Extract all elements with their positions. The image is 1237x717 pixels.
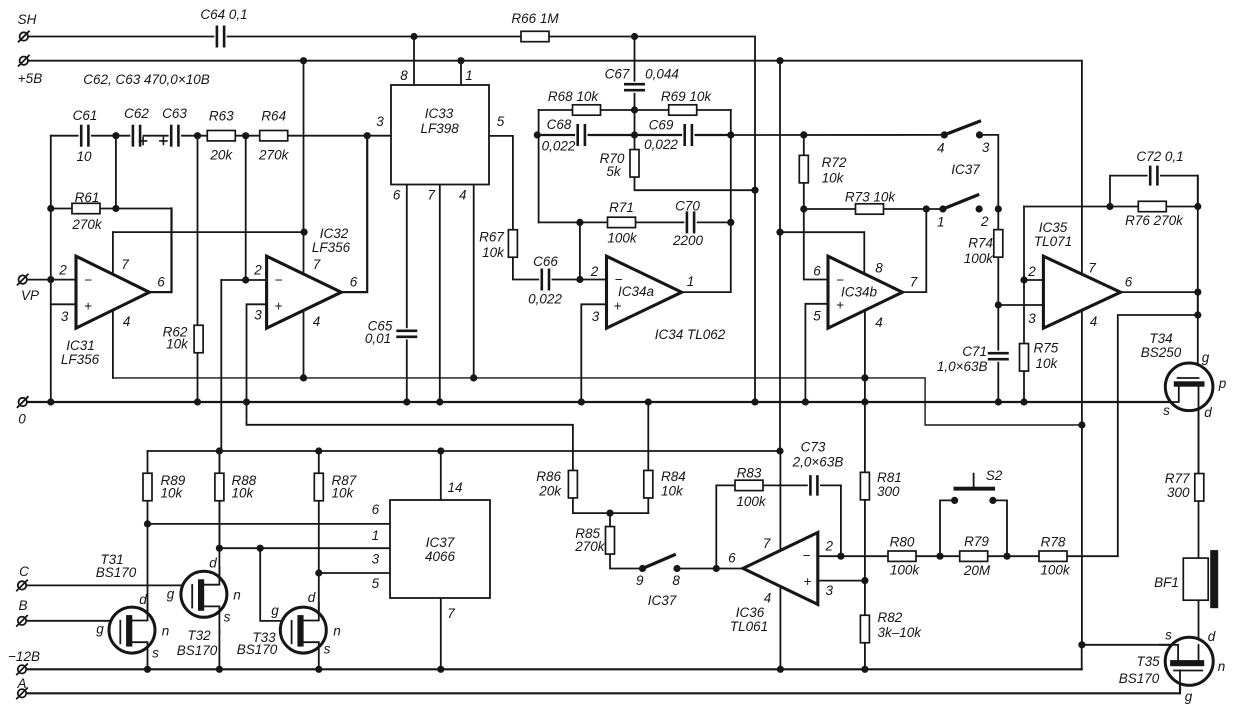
- junction C70 right: [727, 219, 734, 226]
- resistor R89: [143, 473, 152, 501]
- capacitor C65: [396, 328, 417, 339]
- svg-text:R78: R78: [1041, 535, 1066, 550]
- svg-text:LF356: LF356: [312, 240, 351, 255]
- polarity plus C62: [140, 137, 147, 144]
- capacitor C63: [169, 125, 181, 147]
- junction T33 source on -12B rail: [315, 666, 322, 673]
- svg-text:100k: 100k: [607, 231, 638, 246]
- capacitor C71: [988, 351, 1009, 362]
- wire R74 branch: [997, 209, 999, 305]
- resistor R69: [669, 105, 697, 115]
- junction R63-R64 riser to IC32 pin2: [242, 276, 249, 283]
- svg-text:6: 6: [350, 275, 358, 290]
- wire left input riser: [50, 136, 52, 402]
- resistor R79: [960, 551, 988, 561]
- svg-text:IC32: IC32: [320, 226, 349, 241]
- capacitor C67: [624, 82, 645, 93]
- svg-text:4: 4: [937, 141, 945, 156]
- svg-text:3: 3: [592, 309, 600, 324]
- wire S2 right bracket: [993, 500, 1007, 556]
- svg-text:BS170: BS170: [96, 565, 137, 580]
- wire IC31 pin3 lead: [51, 303, 76, 305]
- junction IC32 output to IC33 pin3: [364, 132, 371, 139]
- svg-text:d: d: [139, 592, 147, 607]
- wire IC37 pin6 line: [148, 523, 392, 525]
- wire C73 drop to pin2 row: [840, 485, 842, 556]
- svg-text:10k: 10k: [822, 171, 845, 186]
- resistor R70: [630, 150, 639, 178]
- junction R63-R64 to IC32 pin2: [242, 132, 249, 139]
- svg-text:0: 0: [18, 412, 26, 427]
- wire +5B mid riser: [779, 61, 781, 451]
- transistor T31 BS170 source lead: [132, 642, 147, 670]
- resistor R83: [735, 480, 763, 490]
- junction +5V sub rail right end: [776, 447, 783, 454]
- terminal +5B: [19, 56, 29, 66]
- svg-text:R72: R72: [822, 155, 847, 170]
- wire V+ supply rail left: [113, 231, 304, 233]
- svg-text:C68: C68: [547, 117, 572, 132]
- svg-text:−12B: −12B: [8, 649, 40, 664]
- wire R85 branch: [610, 513, 643, 568]
- wire +5V sub rail: [148, 450, 781, 452]
- polarity plus C63: [160, 137, 167, 144]
- wire IC37 pin3 line: [319, 572, 391, 574]
- wire R73 row: [804, 208, 943, 210]
- svg-text:2: 2: [58, 263, 67, 278]
- svg-text:BS170: BS170: [237, 642, 278, 657]
- wire IC34b output riser: [902, 209, 926, 292]
- capacitor C61: [79, 125, 91, 147]
- wire IC35 to IC36 feedback: [1118, 292, 1198, 556]
- svg-text:4: 4: [459, 188, 467, 203]
- svg-text:100k: 100k: [736, 494, 767, 509]
- wire C61 input row: [51, 135, 246, 137]
- IC box IC33 LF398: [391, 85, 489, 185]
- junction R62 bottom: [194, 398, 201, 405]
- transistor T34 channel bar: [1174, 381, 1205, 386]
- junction S2 contact right: [989, 497, 996, 504]
- junction IC37 pin14 on +5V sub rail: [437, 447, 444, 454]
- junction C61-C62: [112, 132, 119, 139]
- transistor T35 gate electrode: [1174, 670, 1202, 672]
- wire R68 loop left side: [538, 110, 540, 222]
- svg-text:C62: C62: [124, 106, 149, 121]
- junction R74 top: [995, 205, 1002, 212]
- svg-text:1,0×63B: 1,0×63B: [937, 359, 988, 374]
- wire R71-C70 row: [539, 221, 731, 223]
- wire R62 branch: [197, 136, 199, 402]
- wire R72 branch: [803, 135, 805, 209]
- svg-text:g: g: [1185, 689, 1193, 704]
- transistor T32 BS170 circle: [181, 571, 227, 617]
- svg-text:7: 7: [1088, 261, 1096, 276]
- wire IC34b pin5 ground: [805, 304, 828, 402]
- op-amp IC36: [743, 533, 818, 605]
- svg-text:20k: 20k: [209, 148, 233, 163]
- wire A rail: [25, 671, 1180, 694]
- svg-text:BF1: BF1: [1154, 575, 1179, 590]
- junction C67 bottom on R68 row: [631, 106, 638, 113]
- svg-text:10k: 10k: [232, 486, 255, 501]
- op-amp IC35: [1043, 256, 1120, 328]
- junction C67 on SH rail: [631, 33, 638, 40]
- svg-text:C72 0,1: C72 0,1: [1136, 149, 1183, 164]
- svg-text:7: 7: [427, 188, 435, 203]
- transistor T35 channel bar: [1170, 660, 1204, 666]
- junction T35 source node: [1078, 641, 1085, 648]
- svg-text:4066: 4066: [425, 549, 456, 564]
- switch IC37 lever 4-3: [944, 121, 979, 135]
- svg-text:d: d: [209, 556, 217, 571]
- svg-text:7: 7: [313, 257, 321, 272]
- svg-text:300: 300: [1167, 485, 1190, 500]
- svg-text:B: B: [18, 598, 27, 613]
- svg-text:3: 3: [982, 140, 990, 155]
- resistor R72: [799, 155, 808, 183]
- wire IC35 pin2 lead: [1024, 279, 1043, 281]
- svg-text:C64 0,1: C64 0,1: [200, 7, 247, 22]
- svg-text:3: 3: [254, 308, 262, 323]
- transistor T32 BS170 source lead: [204, 606, 219, 634]
- junction IC36 pin4 on -12B rail: [777, 666, 784, 673]
- resistor R86: [568, 470, 577, 498]
- svg-text:0,022: 0,022: [542, 139, 576, 154]
- junction IC34a pin3 ground: [578, 398, 585, 405]
- wire R67 to C66 row: [513, 257, 607, 279]
- transistor T32 BS170 channel bar: [198, 579, 204, 611]
- wire T32 source to -12B: [218, 630, 220, 669]
- svg-text:IC31: IC31: [66, 338, 95, 353]
- junction IC35 pin2: [1020, 276, 1027, 283]
- wire R71 row to C66 row riser: [579, 222, 581, 279]
- svg-text:R64: R64: [261, 109, 286, 124]
- wire switch8 to IC36 output: [677, 568, 743, 570]
- junction R81 line ground: [861, 398, 868, 405]
- svg-text:0,01: 0,01: [365, 331, 391, 346]
- svg-text:g: g: [271, 603, 279, 618]
- wire C input lead: [22, 584, 193, 586]
- wire V- supply rail: [113, 378, 1082, 425]
- svg-text:TL061: TL061: [730, 619, 768, 634]
- capacitor C68: [575, 124, 587, 146]
- svg-text:s: s: [152, 646, 159, 661]
- junction R75 ground: [1020, 398, 1027, 405]
- wire VP lead: [23, 279, 76, 281]
- wire IC32 pin3 lead and ground stub: [247, 304, 573, 470]
- svg-text:4: 4: [1090, 314, 1098, 329]
- wire switch3 to switch2 link: [980, 135, 999, 209]
- svg-text:−: −: [803, 548, 811, 563]
- svg-text:5k: 5k: [606, 164, 622, 179]
- wire R77-BF1 branch: [1198, 387, 1200, 558]
- svg-text:C62, C63 470,0×10B: C62, C63 470,0×10B: [83, 72, 209, 87]
- wire -12B corner up: [1081, 645, 1083, 670]
- resistor R76: [1138, 201, 1166, 211]
- svg-text:14: 14: [447, 480, 462, 495]
- svg-text:R82: R82: [878, 610, 903, 625]
- junction switch IC37 pivot 4: [941, 131, 948, 138]
- svg-text:10k: 10k: [332, 486, 355, 501]
- svg-text:2200: 2200: [672, 233, 704, 248]
- capacitor C73: [808, 475, 820, 496]
- wire IC32 pin2 lead: [221, 279, 266, 281]
- resistor R64: [260, 131, 288, 141]
- svg-text:6: 6: [813, 264, 821, 279]
- svg-text:3: 3: [825, 583, 833, 598]
- junction V+ to IC34b pin8: [776, 229, 783, 236]
- resistor R71: [608, 217, 636, 227]
- svg-text:R67: R67: [479, 230, 504, 245]
- resistor R75: [1020, 344, 1029, 372]
- transistor T35 source lead: [1160, 645, 1178, 660]
- transistor T35 BS170 circle: [1165, 637, 1213, 685]
- svg-text:T32: T32: [187, 628, 211, 643]
- resistor R87: [314, 473, 323, 501]
- wire R84 branch: [647, 402, 649, 513]
- transistor T31 BS170 circle: [109, 607, 155, 653]
- wire C72 bypass loop: [1110, 176, 1198, 207]
- terminal -12B: [17, 664, 27, 674]
- svg-text:BS170: BS170: [1119, 671, 1160, 686]
- junction R88 top on +5V sub rail: [216, 447, 223, 454]
- svg-text:LF356: LF356: [61, 352, 100, 367]
- transistor T34 BS250 circle: [1165, 363, 1213, 411]
- transistor T35 gate lead: [1179, 671, 1181, 694]
- wire +5B rail: [25, 61, 1082, 275]
- transistor T33 BS170 gate electrode: [291, 621, 293, 644]
- wire 0 rail: [25, 401, 1179, 403]
- svg-text:0,044: 0,044: [645, 67, 679, 82]
- junction IC35 pin3 R74: [995, 301, 1002, 308]
- wire R76 row: [1024, 206, 1198, 208]
- junction C68 left: [534, 131, 541, 138]
- svg-text:9: 9: [636, 573, 644, 588]
- svg-text:7: 7: [121, 257, 129, 272]
- wire -12B rail: [25, 668, 1082, 670]
- svg-text:270k: 270k: [258, 148, 290, 163]
- wire R83 feedback riser: [716, 485, 841, 568]
- transistor T33 BS170 source lead: [304, 642, 319, 670]
- resistor R81: [860, 472, 869, 500]
- svg-text:1: 1: [372, 528, 380, 543]
- wire R68-R69 row: [539, 109, 731, 111]
- wire C67 branch: [634, 37, 636, 136]
- IC box IC37 4066: [390, 500, 490, 598]
- transistor T32 BS170 drain lead: [204, 567, 219, 584]
- junction IC37 pin6 line: [144, 520, 151, 527]
- capacitor C64: [214, 26, 226, 48]
- switch S2 bar: [954, 487, 996, 491]
- svg-text:A: A: [16, 676, 26, 691]
- svg-text:R86: R86: [536, 469, 561, 484]
- svg-text:10k: 10k: [1036, 356, 1059, 371]
- svg-text:IC37: IC37: [426, 535, 455, 550]
- svg-text:R80: R80: [890, 535, 915, 550]
- junction R61 left: [47, 205, 54, 212]
- svg-text:R74: R74: [968, 236, 993, 251]
- wire R88 / T32 drain branch: [218, 451, 220, 575]
- svg-text:0,022: 0,022: [644, 137, 678, 152]
- wire IC37 pin7 stub: [440, 598, 442, 669]
- svg-text:10k: 10k: [161, 486, 184, 501]
- svg-text:8: 8: [875, 261, 883, 276]
- svg-text:300: 300: [877, 484, 900, 499]
- resistor R73: [856, 204, 884, 214]
- transistor T35 drain lead: [1198, 645, 1200, 660]
- svg-text:4: 4: [313, 314, 321, 329]
- junction S2 contact left: [951, 497, 958, 504]
- svg-text:IC37: IC37: [951, 162, 980, 177]
- svg-text:IC34b: IC34b: [841, 285, 878, 300]
- terminal VP: [18, 274, 28, 284]
- svg-text:8: 8: [400, 68, 408, 83]
- svg-text:BS250: BS250: [1141, 345, 1182, 360]
- resistor R61: [72, 203, 100, 213]
- svg-text:T34: T34: [1149, 331, 1172, 346]
- wire R89 / T31 drain branch: [147, 451, 149, 524]
- svg-text:1: 1: [465, 68, 473, 83]
- resistor R82: [860, 615, 869, 643]
- wire R61 row: [51, 208, 172, 210]
- wire C68-C69 row: [537, 134, 731, 136]
- svg-text:3: 3: [61, 309, 69, 324]
- wire IC36 supply riser: [779, 451, 781, 669]
- switch IC37 lever 9-8: [643, 555, 675, 569]
- svg-text:R73 10k: R73 10k: [845, 190, 897, 205]
- svg-text:IC34a: IC34a: [618, 284, 655, 299]
- junction C71 ground: [995, 398, 1002, 405]
- wire S2 left bracket: [940, 500, 955, 556]
- junction IC33 pin8 on SH rail: [410, 33, 417, 40]
- junction SH drop ground: [751, 398, 758, 405]
- svg-text:270k: 270k: [574, 539, 606, 554]
- svg-text:7: 7: [910, 275, 918, 290]
- junction T32 drain on pin1 line: [216, 545, 223, 552]
- svg-text:R76 270k: R76 270k: [1125, 213, 1184, 228]
- op-amp IC34a: [607, 256, 682, 328]
- junction R87 top on +5V sub rail: [315, 447, 322, 454]
- svg-text:+: +: [614, 299, 622, 314]
- wire IC33 pin8 stub: [413, 37, 415, 86]
- capacitor C66: [539, 269, 551, 291]
- junction R79-R78 S2 right: [1003, 553, 1010, 560]
- wire IC32 pin2 to R88 line riser: [219, 280, 221, 548]
- svg-text:TL071: TL071: [1034, 234, 1072, 249]
- svg-text:4: 4: [764, 591, 772, 606]
- speaker BF1: [1183, 550, 1218, 608]
- svg-text:R68 10k: R68 10k: [548, 89, 600, 104]
- svg-text:R71: R71: [609, 200, 634, 215]
- junction C68-C69 R70 top: [631, 131, 638, 138]
- capacitor C69: [682, 124, 694, 146]
- junction C69 right: [727, 131, 734, 138]
- junction IC33 pin1 on +5B rail: [457, 57, 464, 64]
- svg-text:4: 4: [875, 315, 883, 330]
- transistor T33 BS170 channel bar: [297, 615, 303, 647]
- svg-text:3: 3: [372, 552, 380, 567]
- svg-text:R69 10k: R69 10k: [661, 89, 713, 104]
- junction V- jog to supply drop: [1078, 421, 1085, 428]
- svg-text:10k: 10k: [482, 245, 505, 260]
- resistor R77: [1195, 474, 1204, 502]
- wire IC34a pin3 ground: [581, 304, 606, 402]
- svg-text:1: 1: [687, 274, 695, 289]
- svg-text:C61: C61: [73, 108, 98, 123]
- junction T33 gate on pin1 line: [257, 545, 264, 552]
- wire IC35 pin3 lead: [998, 304, 1043, 306]
- junction T33 drain on pin3 line: [315, 569, 322, 576]
- wire IC35 output: [1121, 291, 1198, 293]
- wire IC35 pin2 riser / R75 branch: [1023, 207, 1025, 403]
- junction IC34b pin4 on V- rail: [861, 374, 868, 381]
- wire C61-C62 junction riser: [115, 136, 117, 209]
- junction R62 top: [194, 132, 201, 139]
- svg-text:6: 6: [393, 188, 401, 203]
- svg-text:20k: 20k: [538, 484, 562, 499]
- svg-text:6: 6: [157, 275, 165, 290]
- junction R72 top: [800, 131, 807, 138]
- terminal A: [17, 688, 27, 698]
- svg-text:100k: 100k: [890, 563, 921, 578]
- svg-text:IC35: IC35: [1039, 220, 1068, 235]
- wire V+ to IC34b pin8: [780, 232, 864, 273]
- junction IC31 pin3 ground: [47, 398, 54, 405]
- junction +5B mid riser: [776, 57, 783, 64]
- svg-text:6: 6: [372, 502, 380, 517]
- junction IC34b output on R73 row: [923, 205, 930, 212]
- resistor R80: [888, 551, 916, 561]
- svg-text:R63: R63: [209, 109, 234, 124]
- transistor T31 BS170 drain lead: [132, 603, 147, 620]
- svg-text:−: −: [84, 273, 92, 288]
- resistor R63: [207, 131, 235, 141]
- wire IC31 pin7 stub: [112, 232, 114, 274]
- svg-text:SH: SH: [18, 12, 37, 27]
- svg-text:R81: R81: [877, 470, 902, 485]
- svg-text:R66 1M: R66 1M: [511, 11, 559, 26]
- wire R87 / T33 drain branch: [318, 451, 320, 611]
- wire IC31 output feedback: [149, 209, 171, 293]
- op-amp IC31: [76, 256, 149, 328]
- junction R71 row to C66 riser: [576, 219, 583, 226]
- svg-text:VP: VP: [21, 288, 39, 303]
- wire C71 branch: [997, 305, 999, 402]
- resistor R62: [194, 325, 203, 353]
- svg-text:2: 2: [590, 264, 599, 279]
- wire S2 stem: [973, 474, 975, 487]
- terminal SH: [19, 31, 29, 41]
- svg-text:10k: 10k: [166, 337, 189, 352]
- svg-text:T35: T35: [1136, 654, 1160, 669]
- svg-text:2: 2: [980, 214, 989, 229]
- junction V+ rail left end: [301, 229, 308, 236]
- svg-text:R83: R83: [737, 466, 762, 481]
- wire IC33 pin7 branch: [439, 185, 441, 403]
- svg-text:C73: C73: [801, 440, 826, 455]
- svg-text:s: s: [1165, 628, 1172, 643]
- wire BF1 to T35 drain: [1198, 600, 1200, 660]
- svg-text:C70: C70: [675, 199, 700, 214]
- wire T31 drain riser: [147, 524, 149, 611]
- transistor T31 BS170 gate electrode: [119, 621, 121, 644]
- junction VP input: [47, 276, 54, 283]
- svg-text:C63: C63: [162, 106, 187, 121]
- svg-text:8: 8: [672, 573, 680, 588]
- transistor T32 BS170 gate electrode: [191, 585, 193, 608]
- junction R70 bottom on SH drop: [751, 187, 758, 194]
- svg-text:3: 3: [1028, 311, 1036, 326]
